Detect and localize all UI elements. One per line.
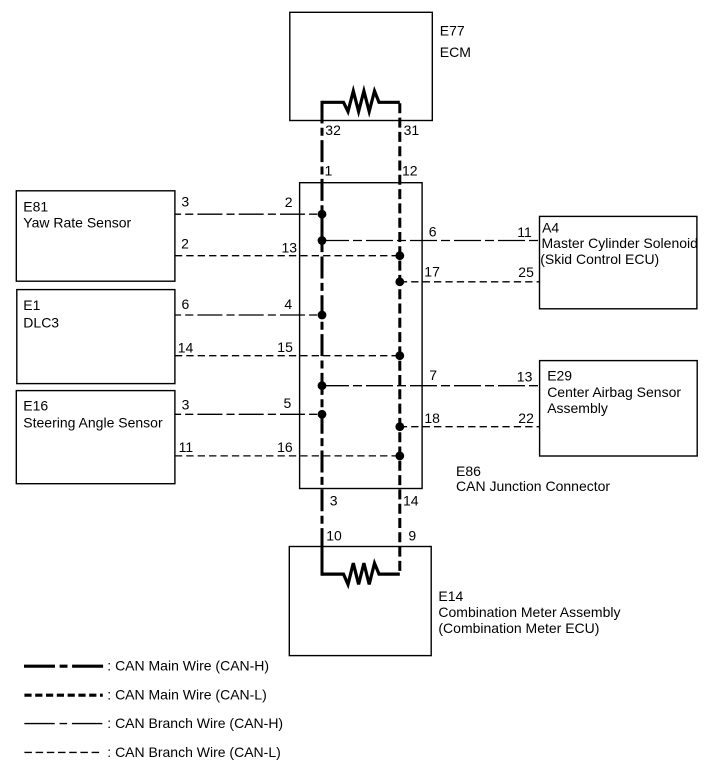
- svg-text:9: 9: [408, 528, 416, 544]
- node junction pin4 on CAN-H: [318, 311, 327, 320]
- resistor (terminating, inside E14): [322, 563, 400, 584]
- wire junction pin18 to E29 pin22 (CAN-L branch): [400, 426, 540, 428]
- wire E1 pin14 to junction pin15 (CAN-L branch): [175, 355, 400, 357]
- node junction pin17 on CAN-L: [395, 277, 404, 286]
- svg-text:25: 25: [518, 264, 534, 280]
- box E86 CAN junction connector: [300, 183, 423, 489]
- legend swatch CAN main wire CAN-L: [24, 694, 102, 697]
- box E29 Center Airbag Sensor Assembly: [540, 361, 698, 456]
- wire junction pin6 to A4 pin11 (CAN-H branch): [322, 240, 540, 242]
- svg-text:17: 17: [424, 264, 440, 280]
- svg-text:2: 2: [285, 194, 293, 210]
- node junction pin7 on CAN-H: [318, 381, 327, 390]
- box A4 Master Cylinder Solenoid (Skid Control ECU): [540, 216, 697, 308]
- wire junction pin7 to E29 pin13 (CAN-H branch): [322, 385, 540, 387]
- svg-text:: CAN Branch Wire (CAN-H): : CAN Branch Wire (CAN-H): [107, 715, 283, 731]
- wire CAN-L main bus (vertical, x=399.8): [398, 102, 401, 574]
- svg-text:14: 14: [403, 492, 419, 508]
- svg-text:3: 3: [182, 396, 190, 412]
- node junction pin5 on CAN-H: [318, 410, 327, 419]
- node junction pin15 on CAN-L: [395, 351, 404, 360]
- wire E81 pin2 to junction pin13 (CAN-L branch): [175, 255, 400, 257]
- svg-text:13: 13: [282, 239, 298, 255]
- wire CAN-H main bus (vertical, x=322): [321, 121, 324, 547]
- wire E16 pin11 to junction pin16 (CAN-L branch): [175, 455, 400, 457]
- svg-text:14: 14: [178, 339, 194, 355]
- box E1 DLC3: [17, 290, 175, 384]
- svg-text:: CAN Main Wire (CAN-L): : CAN Main Wire (CAN-L): [107, 687, 266, 703]
- legend swatch CAN branch wire CAN-H: [24, 723, 103, 725]
- svg-text:(Skid Control ECU): (Skid Control ECU): [540, 251, 659, 267]
- svg-text:22: 22: [518, 410, 534, 426]
- svg-text:Master Cylinder Solenoid: Master Cylinder Solenoid: [542, 235, 698, 251]
- wire E16 pin3 to junction pin5 (CAN-H branch): [175, 413, 322, 415]
- svg-text:5: 5: [284, 395, 292, 411]
- box E14 Combination Meter Assembly (Combination Meter ECU): [289, 547, 431, 656]
- svg-text:7: 7: [429, 367, 437, 383]
- svg-text:ECM: ECM: [440, 44, 471, 60]
- svg-text:DLC3: DLC3: [23, 315, 59, 331]
- legend swatch CAN main wire CAN-H: [24, 665, 103, 668]
- svg-text:12: 12: [402, 163, 418, 179]
- box E16 Steering Angle Sensor: [16, 391, 175, 484]
- svg-text:2: 2: [181, 236, 189, 252]
- svg-text:E29: E29: [547, 368, 572, 384]
- svg-text:11: 11: [179, 439, 194, 455]
- svg-text:15: 15: [277, 339, 293, 355]
- box E81 Yaw Rate Sensor: [16, 191, 175, 281]
- node junction pin2 on CAN-H: [318, 210, 327, 219]
- svg-text:: CAN Main Wire (CAN-H): : CAN Main Wire (CAN-H): [107, 658, 269, 674]
- svg-text:E81: E81: [23, 198, 48, 214]
- svg-text:10: 10: [326, 528, 342, 544]
- svg-text:E77: E77: [440, 23, 465, 39]
- svg-text:(Combination Meter ECU): (Combination Meter ECU): [438, 620, 599, 636]
- svg-text:E1: E1: [23, 297, 40, 313]
- node junction pin13 on CAN-L: [395, 251, 404, 260]
- legend swatch CAN branch wire CAN-L: [24, 751, 102, 753]
- node junction pin18 on CAN-L: [395, 422, 404, 431]
- svg-text:6: 6: [429, 224, 437, 240]
- svg-text:6: 6: [182, 296, 190, 312]
- svg-text:CAN Junction Connector: CAN Junction Connector: [456, 478, 610, 494]
- svg-text:11: 11: [517, 224, 532, 240]
- svg-text:Yaw Rate Sensor: Yaw Rate Sensor: [23, 215, 131, 231]
- box E77 ECM: [290, 12, 433, 120]
- svg-text:Center Airbag Sensor: Center Airbag Sensor: [547, 384, 681, 400]
- svg-text:E86: E86: [456, 463, 481, 479]
- node junction pin16 on CAN-L: [395, 452, 404, 461]
- wire E1 pin6 to junction pin4 (CAN-H branch): [175, 314, 322, 316]
- resistor (terminating, inside ECM): [322, 91, 400, 112]
- svg-text:32: 32: [325, 122, 341, 138]
- svg-text:18: 18: [424, 410, 440, 426]
- wire E81 pin3 to junction pin2 (CAN-H branch): [175, 213, 322, 215]
- svg-text:1: 1: [325, 163, 333, 179]
- svg-text:: CAN Branch Wire (CAN-L): : CAN Branch Wire (CAN-L): [107, 744, 280, 760]
- svg-text:E16: E16: [23, 398, 48, 414]
- svg-text:3: 3: [181, 194, 189, 210]
- svg-text:31: 31: [404, 122, 420, 138]
- svg-text:13: 13: [517, 368, 533, 384]
- svg-text:Steering Angle Sensor: Steering Angle Sensor: [23, 415, 163, 431]
- wire CAN-H solid lead inside ECM: [321, 101, 324, 124]
- svg-text:3: 3: [330, 492, 338, 508]
- svg-text:A4: A4: [542, 220, 559, 236]
- svg-text:Assembly: Assembly: [547, 400, 608, 416]
- svg-text:16: 16: [277, 439, 293, 455]
- wire CAN-H solid lead inside E14: [321, 546, 324, 576]
- node junction pin6 on CAN-H: [318, 236, 327, 245]
- wire junction pin17 to A4 pin25 (CAN-L branch): [400, 281, 540, 283]
- svg-text:E14: E14: [438, 588, 463, 604]
- svg-text:Combination Meter Assembly: Combination Meter Assembly: [438, 604, 620, 620]
- svg-text:4: 4: [284, 296, 292, 312]
